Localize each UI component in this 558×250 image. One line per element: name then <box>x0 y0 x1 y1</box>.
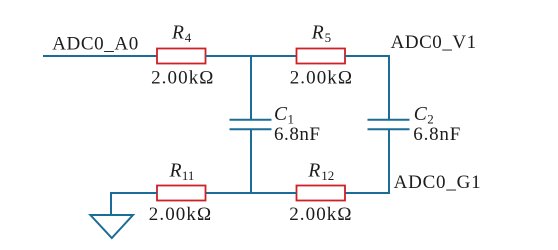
svg-text:ADC0_A0: ADC0_A0 <box>52 33 138 54</box>
wire: C1 top lead from top wire <box>250 55 252 120</box>
wire: R12 to R11 with junction from C1 <box>206 192 297 194</box>
ground <box>90 215 133 238</box>
svg-text:6.8nF: 6.8nF <box>274 124 320 145</box>
wire: vertical from ADC0_V1 node down to C2 <box>388 55 390 120</box>
wire: left lead from ADC0_A0 to R4 <box>43 55 158 57</box>
svg-text:6.8nF: 6.8nF <box>413 124 460 145</box>
value 6.8nF of C2 <box>413 124 460 145</box>
label R4 <box>171 23 192 46</box>
net label ADC0_V1 <box>391 32 477 53</box>
svg-text:R: R <box>311 23 324 44</box>
label R12 <box>307 161 334 184</box>
resistor R5 <box>297 49 346 64</box>
wire: bottom rail from corner to R12 <box>345 192 390 194</box>
label C2 <box>414 104 434 127</box>
svg-text:ADC0_G1: ADC0_G1 <box>394 172 481 193</box>
value 2.00kΩ of R4 <box>151 67 213 88</box>
svg-text:R: R <box>307 161 320 182</box>
svg-text:2.00kΩ: 2.00kΩ <box>151 67 213 88</box>
svg-text:12: 12 <box>321 168 334 183</box>
resistor R11 <box>157 186 206 201</box>
capacitor C1 <box>230 120 272 129</box>
svg-text:2.00kΩ: 2.00kΩ <box>149 204 211 225</box>
value 6.8nF of C1 <box>274 124 320 145</box>
value 2.00kΩ of R11 <box>149 204 211 225</box>
resistor R12 <box>297 186 346 201</box>
label R5 <box>311 23 331 46</box>
svg-text:ADC0_V1: ADC0_V1 <box>391 32 477 53</box>
net label ADC0_G1 <box>394 172 481 193</box>
value 2.00kΩ of R5 <box>290 67 352 88</box>
svg-text:R: R <box>169 161 182 182</box>
svg-text:2.00kΩ: 2.00kΩ <box>289 204 351 225</box>
svg-text:2.00kΩ: 2.00kΩ <box>290 67 352 88</box>
wire: R4 to R5 with junction to C1 <box>206 55 297 57</box>
value 2.00kΩ of R12 <box>289 204 351 225</box>
svg-text:11: 11 <box>182 168 195 183</box>
svg-text:4: 4 <box>185 30 192 45</box>
svg-text:C: C <box>414 104 428 125</box>
net label ADC0_A0 <box>52 33 138 54</box>
wire: R11 left to ground drop <box>111 193 157 215</box>
capacitor C2 <box>368 120 410 129</box>
svg-text:C: C <box>274 104 288 125</box>
wire: C2 bottom lead down to ADC0_G1 corner <box>388 129 390 194</box>
label C1 <box>274 104 294 127</box>
label R11 <box>169 161 195 184</box>
resistor R4 <box>157 49 206 64</box>
svg-text:5: 5 <box>325 30 332 45</box>
wire: R5 to ADC0_V1 corner <box>345 55 390 57</box>
svg-text:R: R <box>171 23 184 44</box>
wire: C1 bottom lead to bottom rail <box>250 129 252 194</box>
